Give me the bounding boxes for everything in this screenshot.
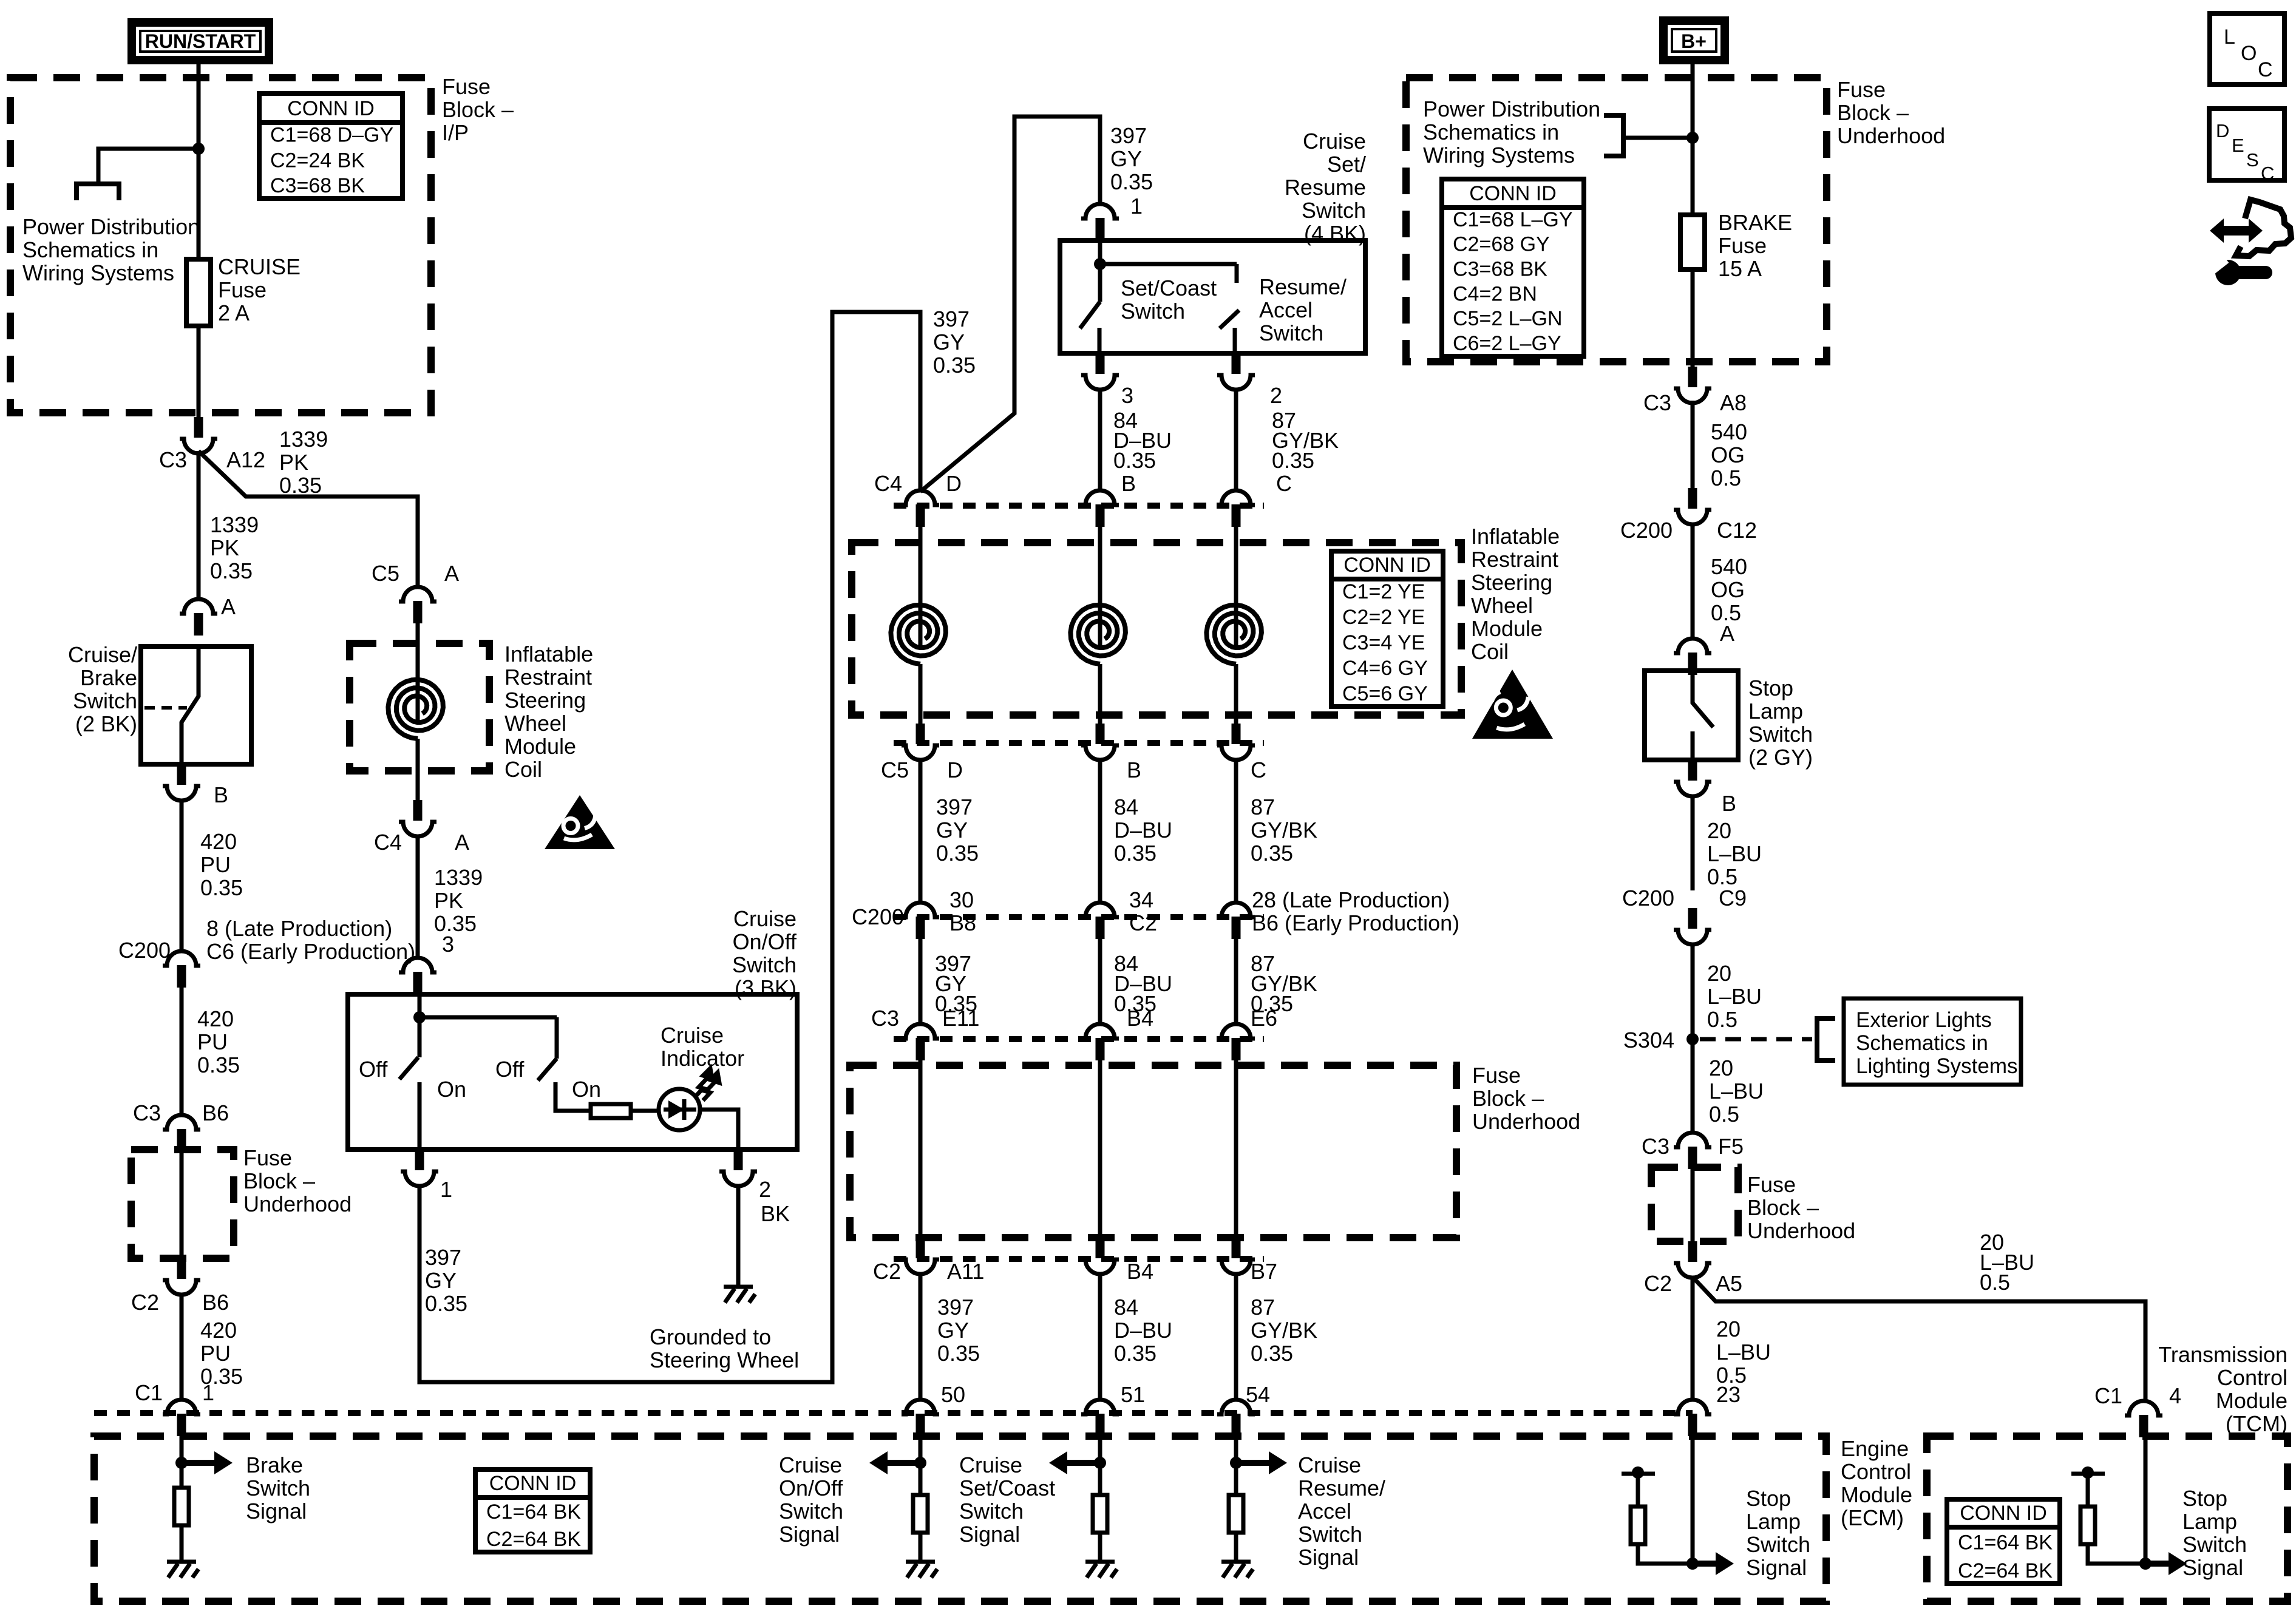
svg-text:Signal: Signal bbox=[779, 1522, 840, 1547]
svg-text:Block –: Block – bbox=[243, 1168, 315, 1193]
svg-text:Block –: Block – bbox=[442, 97, 514, 122]
svg-text:GY: GY bbox=[936, 818, 968, 842]
connector pin 3 (cruise on/off switch) bbox=[399, 958, 436, 994]
svg-text:O: O bbox=[2241, 42, 2257, 65]
label Fuse Block - Underhood (left) bbox=[243, 1145, 352, 1216]
wire 540 OG segment 2 bbox=[1691, 523, 1695, 640]
svg-text:Accel: Accel bbox=[1259, 297, 1313, 322]
wire through fuse block E6 bbox=[1234, 1060, 1238, 1238]
svg-text:Block –: Block – bbox=[1747, 1195, 1819, 1220]
resistor ECM brake switch pull-up bbox=[174, 1488, 189, 1525]
label circuit 397 GY 0.35 (riser) bbox=[933, 307, 976, 378]
wire into coil module bbox=[416, 623, 420, 720]
connector pin 23 (ECM) bbox=[1674, 1400, 1711, 1436]
label 20 L-BU 0.5 bbox=[1707, 818, 1762, 889]
node junction at Power Distribution tap bbox=[192, 143, 205, 155]
svg-text:Inflatable: Inflatable bbox=[504, 642, 593, 666]
svg-text:Underhood: Underhood bbox=[1837, 123, 1945, 148]
wire into ECM brake switch signal bbox=[180, 1436, 184, 1488]
svg-text:C9: C9 bbox=[1719, 886, 1747, 910]
label Set/Coast Switch bbox=[1121, 276, 1217, 324]
svg-text:C5=6 GY: C5=6 GY bbox=[1342, 682, 1428, 705]
Fuse Block - Underhood top-right dashed box bbox=[1406, 78, 1827, 362]
connector C3 pin A8 bbox=[1674, 367, 1711, 403]
svg-text:Signal: Signal bbox=[2182, 1555, 2243, 1580]
label Fuse Block - Underhood (right) bbox=[1747, 1172, 1855, 1243]
wire tap to off-page bracket (right) bbox=[1623, 136, 1693, 140]
Fuse Block - I/P dashed box bbox=[10, 78, 431, 413]
wire B+ to BRAKE fuse bbox=[1691, 64, 1695, 215]
wire 397 GY c5-c200 bbox=[919, 759, 923, 904]
svg-text:CRUISE: CRUISE bbox=[218, 254, 301, 279]
ECM stop lamp pull-up network bbox=[1622, 1466, 1693, 1564]
wire stop lamp lower contact bbox=[1691, 731, 1695, 760]
svg-text:(2 GY): (2 GY) bbox=[1748, 745, 1813, 770]
connector pin 2 (resume/accel) bbox=[1217, 353, 1255, 390]
label 20 L-BU 0.5 (4) bbox=[1716, 1317, 1771, 1388]
svg-text:B: B bbox=[1127, 758, 1141, 782]
label Inflatable Restraint Steering Wheel Module Coil (middle) bbox=[1471, 524, 1560, 664]
label circuit 420 PU 0.35 (3) bbox=[200, 1318, 243, 1389]
Engine Control Module (ECM) dashed box bbox=[94, 1436, 1826, 1601]
wire resume pole stub bbox=[1235, 264, 1239, 283]
svg-text:0.5: 0.5 bbox=[1707, 1007, 1737, 1032]
svg-text:Lamp: Lamp bbox=[1748, 699, 1803, 724]
svg-text:C1=2 YE: C1=2 YE bbox=[1342, 580, 1425, 603]
svg-text:Lighting Systems: Lighting Systems bbox=[1856, 1054, 2018, 1078]
connector C200 pin C9 bbox=[1674, 908, 1711, 944]
svg-text:23: 23 bbox=[1716, 1382, 1741, 1407]
svg-text:C: C bbox=[2261, 163, 2274, 184]
svg-text:Brake: Brake bbox=[80, 665, 137, 690]
svg-text:397: 397 bbox=[1110, 123, 1147, 148]
svg-text:0.35: 0.35 bbox=[197, 1053, 240, 1077]
svg-text:C3: C3 bbox=[871, 1006, 899, 1031]
coil clockspring spiral D bbox=[891, 605, 946, 664]
svg-text:Set/: Set/ bbox=[1327, 152, 1366, 177]
svg-text:Wiring Systems: Wiring Systems bbox=[22, 260, 174, 285]
svg-text:397: 397 bbox=[425, 1245, 461, 1270]
wire switch pin1 to C4 D bbox=[920, 117, 1100, 492]
svg-text:C: C bbox=[1276, 471, 1292, 496]
label circuit 87 GY/BK 0.35 top bbox=[1272, 408, 1339, 473]
wire 84 D-BU c5-c200 bbox=[1098, 759, 1102, 904]
connector row dotted line C200/B8-C2-B6 bbox=[894, 914, 1264, 920]
svg-text:D: D bbox=[946, 471, 962, 496]
svg-text:C2: C2 bbox=[873, 1259, 901, 1284]
CONN ID table (Fuse Block I/P) bbox=[259, 93, 402, 198]
svg-text:L–BU: L–BU bbox=[1707, 841, 1762, 866]
svg-text:Cruise: Cruise bbox=[959, 1453, 1022, 1477]
svg-text:PU: PU bbox=[200, 852, 231, 877]
node on/off switch junction bbox=[413, 1011, 426, 1023]
label circuit 420 PU 0.35 (2) bbox=[197, 1006, 240, 1077]
svg-text:1339: 1339 bbox=[210, 512, 259, 537]
svg-text:B: B bbox=[1121, 471, 1136, 496]
Transmission Control Module (TCM) dashed box bbox=[1927, 1436, 2288, 1601]
wire set/coast pole bbox=[1098, 240, 1102, 302]
wire resume lower contact bbox=[1233, 328, 1237, 353]
svg-text:Transmission: Transmission bbox=[2158, 1342, 2288, 1367]
svg-text:A8: A8 bbox=[1720, 390, 1747, 415]
svg-text:15 A: 15 A bbox=[1718, 256, 1762, 281]
connector C4 pin C bbox=[1217, 490, 1255, 527]
label circuit 420 PU 0.35 bbox=[200, 829, 243, 900]
svg-text:B8: B8 bbox=[949, 910, 976, 935]
label circuit 84 D-BU 0.35 top bbox=[1113, 408, 1172, 473]
wire pin3 pole bbox=[418, 994, 422, 1057]
connector C2 pin B6 bbox=[163, 1258, 200, 1295]
svg-text:0.35: 0.35 bbox=[434, 911, 477, 936]
svg-text:C2: C2 bbox=[131, 1290, 159, 1315]
label Cruise On/Off Switch (3 BK) bbox=[732, 906, 797, 1000]
svg-text:L–BU: L–BU bbox=[1716, 1340, 1771, 1364]
switch blade set/coast bbox=[1080, 302, 1100, 328]
wire 1339 PK down to cruise/brake switch bbox=[197, 451, 201, 600]
svg-text:4: 4 bbox=[2169, 1383, 2181, 1408]
svg-text:1339: 1339 bbox=[279, 427, 328, 452]
svg-text:B: B bbox=[214, 782, 228, 807]
connector C3 pin E6 bbox=[1217, 1024, 1255, 1060]
label Fuse Block - Underhood (middle) bbox=[1472, 1063, 1580, 1134]
wire into coil D bbox=[919, 527, 923, 645]
svg-text:Wheel: Wheel bbox=[1471, 593, 1533, 618]
svg-text:0.35: 0.35 bbox=[1272, 448, 1314, 473]
svg-text:0.35: 0.35 bbox=[937, 1341, 980, 1366]
svg-text:397: 397 bbox=[937, 1295, 974, 1320]
svg-text:51: 51 bbox=[1121, 1382, 1145, 1407]
svg-text:0.5: 0.5 bbox=[1980, 1270, 2010, 1295]
svg-text:2: 2 bbox=[759, 1177, 771, 1202]
svg-text:Control: Control bbox=[1841, 1459, 1911, 1484]
dashed reference line S304 to exterior lights bbox=[1700, 1037, 1812, 1042]
svg-text:GY/BK: GY/BK bbox=[1251, 1318, 1317, 1343]
off-page bracket (Power Distribution right) bbox=[1604, 115, 1623, 156]
wire to indicator pole bbox=[419, 1015, 557, 1020]
label Grounded to Steering Wheel bbox=[650, 1324, 799, 1372]
svg-text:Stop: Stop bbox=[2182, 1486, 2227, 1511]
svg-text:Signal: Signal bbox=[959, 1522, 1020, 1547]
ground ECM resume bbox=[1221, 1562, 1253, 1578]
svg-text:Stop: Stop bbox=[1746, 1486, 1791, 1511]
label 84 D-BU 0.35 (ecm) bbox=[1114, 1295, 1172, 1366]
svg-text:B+: B+ bbox=[1681, 30, 1707, 52]
wire 20 L-BU to ECM pin 23 bbox=[1691, 1276, 1695, 1401]
label Cruise Set/Coast Switch Signal bbox=[959, 1453, 1055, 1547]
ground steering wheel bbox=[724, 1287, 755, 1303]
svg-text:C1=64 BK: C1=64 BK bbox=[1958, 1531, 2053, 1554]
svg-text:RUN/START: RUN/START bbox=[145, 30, 256, 52]
wire 397 GY c200-c3 bbox=[919, 939, 923, 1025]
svg-text:Switch: Switch bbox=[1302, 198, 1366, 223]
svg-text:Steering: Steering bbox=[504, 688, 586, 713]
svg-text:PU: PU bbox=[197, 1029, 228, 1054]
svg-text:C6=2 L–GY: C6=2 L–GY bbox=[1453, 332, 1561, 355]
svg-text:Restraint: Restraint bbox=[504, 665, 592, 690]
LOC legend box bbox=[2210, 13, 2284, 84]
svg-text:Cruise: Cruise bbox=[1298, 1453, 1361, 1477]
svg-text:C3: C3 bbox=[133, 1100, 161, 1125]
icon airbag warning triangle (left) bbox=[545, 795, 615, 849]
svg-text:Off: Off bbox=[495, 1057, 525, 1082]
svg-text:Coil: Coil bbox=[1471, 639, 1509, 664]
wire pin2 to ground bbox=[736, 1185, 741, 1287]
wire coil to C4 bbox=[416, 739, 420, 800]
svg-text:C2=64 BK: C2=64 BK bbox=[1958, 1559, 2053, 1582]
svg-text:C5=2 L–GN: C5=2 L–GN bbox=[1453, 307, 1563, 330]
connector row dotted line C2/A11-B4-B7 bbox=[894, 1256, 1264, 1262]
connector C200 pin B8 bbox=[902, 903, 939, 939]
svg-text:Stop: Stop bbox=[1748, 676, 1793, 700]
svg-text:0.35: 0.35 bbox=[210, 558, 253, 583]
node cruise set/coast signal arrow bbox=[1049, 1451, 1106, 1474]
svg-text:Fuse: Fuse bbox=[442, 74, 491, 99]
connector pin 50 (ECM) bbox=[902, 1400, 939, 1436]
svg-text:C4=2 BN: C4=2 BN bbox=[1453, 282, 1537, 305]
label 397 GY 0.35 (ecm) bbox=[937, 1295, 980, 1366]
connector pin 51 (ECM) bbox=[1081, 1400, 1119, 1436]
label 397 GY 0.35 (c200) bbox=[935, 951, 977, 1016]
wire indicator pole stub bbox=[555, 1017, 559, 1059]
svg-text:Steering: Steering bbox=[1471, 570, 1552, 595]
Cruise On/Off Switch box bbox=[348, 994, 797, 1150]
svg-text:Block –: Block – bbox=[1837, 100, 1909, 125]
svg-text:L–BU: L–BU bbox=[1707, 984, 1762, 1009]
svg-text:C3=68 BK: C3=68 BK bbox=[1453, 258, 1547, 281]
resistor cruise indicator bbox=[591, 1104, 631, 1118]
svg-text:Inflatable: Inflatable bbox=[1471, 524, 1560, 549]
svg-text:Exterior Lights: Exterior Lights bbox=[1856, 1008, 1992, 1032]
connector C3 pin B6 (fuse block underhood) bbox=[163, 1115, 200, 1151]
svg-text:C2: C2 bbox=[1644, 1271, 1672, 1296]
CONN ID table (steering wheel coil) bbox=[1331, 551, 1443, 707]
label Exterior Lights Schematics in Lighting Systems bbox=[1856, 1008, 2018, 1078]
svg-text:D–BU: D–BU bbox=[1114, 818, 1172, 842]
resistor ECM on/off signal bbox=[913, 1495, 928, 1533]
svg-text:C6 (Early Production): C6 (Early Production) bbox=[206, 939, 415, 964]
svg-text:C: C bbox=[2258, 58, 2273, 81]
label Fuse Block - Underhood (top right) bbox=[1837, 77, 1945, 148]
svg-text:Lamp: Lamp bbox=[2182, 1509, 2237, 1534]
wire CRUISE fuse to C3 connector bbox=[197, 326, 201, 417]
wire coil B out bbox=[1098, 664, 1102, 724]
svg-text:(ECM): (ECM) bbox=[1841, 1505, 1904, 1530]
connector C2 pin A11 bbox=[902, 1238, 939, 1274]
svg-text:C1: C1 bbox=[2094, 1383, 2122, 1408]
connector terminal A (stop lamp switch) bbox=[1674, 639, 1711, 675]
svg-text:C3: C3 bbox=[1643, 390, 1671, 415]
label 397 GY 0.35 (c5) bbox=[936, 795, 979, 866]
svg-text:8 (Late Production): 8 (Late Production) bbox=[206, 916, 392, 941]
switch blade resume/accel bbox=[1220, 310, 1239, 328]
svg-text:C4: C4 bbox=[874, 471, 902, 496]
svg-text:Switch: Switch bbox=[1748, 722, 1813, 747]
svg-text:Set/Coast: Set/Coast bbox=[959, 1476, 1055, 1500]
CONN ID table (ECM) bbox=[475, 1470, 590, 1552]
svg-text:Block –: Block – bbox=[1472, 1086, 1544, 1111]
svg-text:BK: BK bbox=[761, 1201, 790, 1226]
connector row dotted line C3/E11-B4-E6 bbox=[894, 1036, 1264, 1042]
svg-text:2: 2 bbox=[1270, 383, 1282, 408]
node stop lamp signal arrow (TCM) bbox=[2139, 1552, 2187, 1575]
label 87 GY/BK 0.35 (c200) bbox=[1251, 951, 1317, 1016]
svg-text:L–BU: L–BU bbox=[1709, 1079, 1764, 1103]
wire resistor to LED bbox=[631, 1109, 659, 1113]
wire resistor50 to ground bbox=[919, 1533, 923, 1562]
connector pin 3 (set/coast) bbox=[1081, 353, 1119, 390]
svg-text:C1: C1 bbox=[135, 1380, 163, 1405]
svg-text:Fuse: Fuse bbox=[1718, 233, 1767, 258]
connector terminal B (stop lamp switch) bbox=[1674, 760, 1711, 796]
svg-text:84: 84 bbox=[1114, 1295, 1138, 1320]
label Engine Control Module (ECM) bbox=[1841, 1436, 1912, 1530]
svg-text:1339: 1339 bbox=[434, 865, 483, 890]
coil clockspring spiral B bbox=[1070, 605, 1126, 664]
icon airbag warning triangle (middle) bbox=[1472, 670, 1553, 739]
svg-text:Cruise: Cruise bbox=[661, 1023, 724, 1048]
svg-text:20: 20 bbox=[1707, 961, 1731, 986]
svg-text:Set/Coast: Set/Coast bbox=[1121, 276, 1217, 300]
wire 84 D-BU to ECM bbox=[1098, 1273, 1102, 1401]
label Power Distribution Schematics in Wiring Systems (right) bbox=[1423, 97, 1600, 168]
label circuit 1339 PK 0.35 (branch) bbox=[279, 427, 328, 498]
svg-text:C: C bbox=[1251, 758, 1266, 782]
label Transmission Control Module (TCM) bbox=[2158, 1342, 2288, 1436]
wire 87 GY/BK to ECM bbox=[1234, 1273, 1238, 1401]
wire fuse to C3 A8 bbox=[1691, 269, 1695, 367]
svg-text:E: E bbox=[2232, 135, 2244, 156]
svg-text:A: A bbox=[221, 594, 236, 619]
Cruise/Brake Switch box bbox=[141, 646, 251, 764]
B+ power tag box bbox=[1663, 21, 1725, 60]
label 34 C2 bbox=[1129, 887, 1157, 935]
connector C2 pin B7 bbox=[1217, 1238, 1255, 1274]
svg-text:Off: Off bbox=[359, 1057, 388, 1082]
wire set/coast lower contact bbox=[1098, 328, 1102, 353]
svg-text:1: 1 bbox=[440, 1177, 452, 1202]
label 30 B8 bbox=[949, 887, 976, 935]
wire pin23 into ECM bbox=[1691, 1436, 1695, 1564]
wire 420 PU segment 3 bbox=[180, 1293, 184, 1401]
connector C2 pin B4 bbox=[1081, 1238, 1119, 1274]
svg-text:C3=68 BK: C3=68 BK bbox=[270, 174, 365, 197]
node cruise resume/accel signal arrow bbox=[1230, 1451, 1287, 1474]
connector C5 pin A (steering wheel coil) bbox=[399, 587, 436, 623]
svg-text:20: 20 bbox=[1709, 1056, 1733, 1080]
svg-text:Fuse: Fuse bbox=[1472, 1063, 1521, 1088]
svg-text:Module: Module bbox=[1471, 616, 1543, 641]
svg-text:A: A bbox=[444, 561, 459, 586]
svg-text:C200: C200 bbox=[1620, 518, 1673, 543]
svg-text:I/P: I/P bbox=[442, 120, 469, 145]
node stop lamp signal arrow (ECM) bbox=[1686, 1552, 1734, 1575]
label 87 GY/BK 0.35 (ecm) bbox=[1251, 1295, 1317, 1366]
ground ECM set/coast bbox=[1085, 1562, 1117, 1578]
LED cruise indicator bbox=[659, 1068, 719, 1130]
label circuit 397 GY 0.35 (pin1) bbox=[425, 1245, 467, 1316]
wire 420 PU segment 1 bbox=[180, 799, 184, 952]
svg-text:Module: Module bbox=[504, 734, 576, 759]
label 20 L-BU 0.5 (3) bbox=[1709, 1056, 1764, 1127]
svg-text:0.5: 0.5 bbox=[1709, 1102, 1739, 1127]
wire LED to pin 2 bbox=[700, 1110, 738, 1150]
svg-text:Indicator: Indicator bbox=[661, 1046, 744, 1071]
Exterior Lights reference box bbox=[1844, 998, 2021, 1085]
connector C4 pin A bbox=[399, 800, 436, 836]
svg-text:Brake: Brake bbox=[246, 1453, 303, 1477]
svg-text:Switch: Switch bbox=[246, 1476, 310, 1500]
svg-text:Wiring Systems: Wiring Systems bbox=[1423, 143, 1575, 168]
svg-text:54: 54 bbox=[1246, 1382, 1270, 1407]
svg-text:Accel: Accel bbox=[1298, 1499, 1351, 1524]
svg-text:B6 (Early Production): B6 (Early Production) bbox=[1252, 910, 1459, 935]
svg-text:87: 87 bbox=[1251, 1295, 1275, 1320]
svg-text:CONN ID: CONN ID bbox=[287, 97, 375, 120]
svg-text:C200: C200 bbox=[118, 938, 171, 963]
wire 397 GY loop from pin1 up to C4 D bbox=[419, 312, 920, 1382]
svg-text:Underhood: Underhood bbox=[1747, 1218, 1855, 1243]
wire 20 L-BU branch to TCM bbox=[1694, 1278, 2145, 1402]
connector C2 pin A5 bbox=[1674, 1241, 1711, 1278]
connector pin 54 (ECM) bbox=[1217, 1400, 1255, 1436]
svg-text:Schematics in: Schematics in bbox=[22, 237, 158, 262]
cruise/brake switch internal dashed line bbox=[144, 706, 187, 710]
label Resume/Accel Switch bbox=[1259, 274, 1347, 345]
svg-text:420: 420 bbox=[200, 829, 237, 854]
label Cruise On/Off Switch Signal bbox=[779, 1453, 843, 1547]
svg-text:Switch: Switch bbox=[1259, 320, 1323, 345]
label 540 OG 0.5 (2) bbox=[1711, 554, 1747, 625]
label Cruise Indicator bbox=[661, 1023, 744, 1071]
svg-text:PK: PK bbox=[279, 450, 308, 475]
svg-text:Engine: Engine bbox=[1841, 1436, 1909, 1461]
label 28 late / B6 early bbox=[1252, 887, 1459, 935]
label circuit 397 GY 0.35 (pin 1 top) bbox=[1110, 123, 1153, 194]
wire pin50 into ECM bbox=[919, 1436, 923, 1495]
ground ECM on/off bbox=[906, 1562, 937, 1578]
TCM stop lamp pull-up network bbox=[2071, 1466, 2145, 1564]
wire tap to off-page bracket bbox=[98, 149, 199, 184]
svg-text:Cruise: Cruise bbox=[1303, 129, 1366, 154]
svg-text:C1=68 D–GY: C1=68 D–GY bbox=[270, 124, 393, 147]
label Cruise Resume/Accel Switch Signal bbox=[1298, 1453, 1385, 1570]
wire 397 GY to ECM bbox=[919, 1273, 923, 1401]
label 540 OG 0.5 bbox=[1711, 419, 1747, 490]
svg-text:D: D bbox=[2216, 120, 2229, 141]
svg-text:0.5: 0.5 bbox=[1711, 466, 1741, 490]
svg-text:Steering Wheel: Steering Wheel bbox=[650, 1347, 799, 1372]
svg-text:B7: B7 bbox=[1251, 1259, 1277, 1284]
wire resistor54 to ground bbox=[1234, 1533, 1238, 1562]
wire through fuse block underhood bbox=[180, 1151, 184, 1258]
connector C5 pin C bbox=[1217, 724, 1255, 760]
svg-text:GY: GY bbox=[425, 1268, 457, 1293]
label circuit 1339 PK 0.35 bbox=[210, 512, 259, 583]
svg-text:C200: C200 bbox=[852, 904, 904, 929]
svg-text:0.35: 0.35 bbox=[425, 1291, 467, 1316]
svg-text:S: S bbox=[2246, 149, 2259, 171]
svg-text:Fuse: Fuse bbox=[218, 277, 267, 302]
wire 540 OG segment 1 bbox=[1691, 401, 1695, 488]
label Stop Lamp Switch (2 GY) bbox=[1748, 676, 1813, 770]
wire into coil C bbox=[1234, 527, 1238, 645]
label Cruise/Brake Switch (2 BK) bbox=[68, 642, 137, 736]
wire coil D out bbox=[919, 664, 923, 724]
wire 87 GY/BK c200-c3 bbox=[1234, 939, 1238, 1025]
wire 84 D-BU to C4 B bbox=[1098, 388, 1102, 492]
svg-text:CONN ID: CONN ID bbox=[1343, 554, 1431, 577]
svg-text:C3: C3 bbox=[159, 447, 187, 472]
